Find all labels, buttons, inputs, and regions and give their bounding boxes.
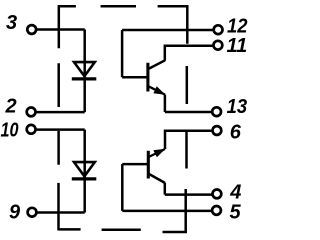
pin 11 terminal circle	[214, 41, 223, 50]
pin 10 terminal circle	[27, 125, 36, 134]
svg-text:9: 9	[9, 202, 21, 224]
wire pin 4 to Q2 collector	[165, 193, 212, 196]
pin 3 terminal circle	[27, 25, 36, 34]
wire pin 6 to Q2 emitter	[165, 131, 212, 149]
wire Q1 base lead	[122, 76, 147, 79]
transistor Q1 emitter diagonal	[149, 86, 166, 94]
LED D1 cathode bar	[72, 77, 97, 80]
package outline dashed box: top edge	[59, 5, 189, 8]
svg-text:10: 10	[1, 120, 19, 142]
transistor Q2 collector diagonal	[149, 174, 165, 183]
pin 6 terminal circle	[213, 126, 222, 135]
package outline dashed box: right edge	[186, 5, 188, 233]
transistor Q1 emitter arrowhead	[153, 86, 165, 95]
wire pin 5 to Q2 base (horizontal)	[122, 210, 212, 213]
wire pin 11 to Q1 collector	[165, 46, 213, 61]
wire Q1 emitter down to pin 13	[164, 95, 167, 112]
wire pin 10 to LED2 anode	[36, 128, 85, 131]
svg-text:6: 6	[230, 122, 242, 144]
wire LED2 vertical (anode to cathode line)	[83, 130, 86, 213]
wire LED1 vertical (anode to cathode line)	[83, 30, 86, 113]
wire pin 12 to Q1 base (horizontal)	[122, 29, 213, 32]
wire Q2 collector to pin 4 corner	[164, 183, 167, 195]
pin 9 terminal circle	[28, 208, 37, 217]
wire pin 12 vertical down to base lead	[121, 30, 124, 77]
pin 2 terminal circle	[27, 108, 36, 117]
LED D2 triangle	[74, 162, 95, 176]
wire pin 5 vertical up to base lead	[121, 164, 124, 211]
wire pin 9 to LED2 cathode	[37, 211, 85, 214]
svg-text:13: 13	[227, 96, 248, 118]
pin 4 terminal circle	[213, 190, 222, 199]
transistor Q1 collector diagonal	[149, 60, 166, 69]
pin 5 terminal circle	[212, 206, 221, 215]
transistor Q2 emitter diagonal	[149, 149, 165, 157]
svg-text:2: 2	[5, 96, 17, 118]
package outline dashed box: left edge	[57, 5, 60, 231]
wire Q2 base lead	[122, 163, 147, 166]
LED D1 triangle	[74, 62, 95, 76]
svg-text:3: 3	[6, 12, 17, 34]
package outline dashed box: bottom edge	[59, 229, 187, 232]
transistor Q2 emitter arrowhead	[153, 149, 165, 157]
transistor Q1 base bar	[146, 63, 149, 92]
wire pin 2 to LED1 cathode	[36, 111, 85, 114]
pin 13 terminal circle	[212, 107, 221, 116]
svg-text:4: 4	[229, 182, 241, 204]
wire pin 13 to Q1 emitter	[165, 111, 212, 114]
svg-text:12: 12	[227, 15, 248, 37]
transistor Q2 base bar	[147, 151, 150, 179]
svg-text:11: 11	[227, 35, 248, 57]
pin 12 terminal circle	[214, 25, 223, 34]
wire pin 3 to LED1 anode	[36, 28, 84, 31]
svg-text:5: 5	[230, 202, 242, 224]
LED D2 cathode bar	[72, 177, 97, 180]
